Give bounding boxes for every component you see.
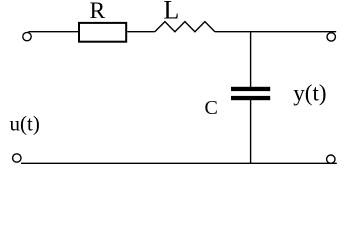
wire input to R (28, 31, 79, 33)
svg-text:C: C (205, 97, 218, 119)
resistor R (79, 23, 126, 42)
wire capacitor to bottom (250, 100, 252, 164)
terminal bottom-right (327, 155, 335, 163)
svg-text:L: L (163, 0, 179, 24)
svg-text:u(t): u(t) (10, 112, 40, 136)
svg-text:y(t): y(t) (293, 80, 326, 105)
terminal output top-right (327, 33, 335, 41)
capacitor C plate bottom (231, 96, 270, 100)
wire bottom rail (21, 162, 337, 164)
inductor L (155, 22, 215, 32)
wire L to output (215, 31, 336, 33)
wire R to L (127, 31, 155, 33)
terminal input top-left (23, 32, 31, 40)
terminal bottom-left (13, 154, 21, 162)
svg-text:R: R (90, 0, 106, 24)
capacitor C plate top (231, 87, 270, 91)
wire node junction to capacitor (250, 32, 252, 87)
